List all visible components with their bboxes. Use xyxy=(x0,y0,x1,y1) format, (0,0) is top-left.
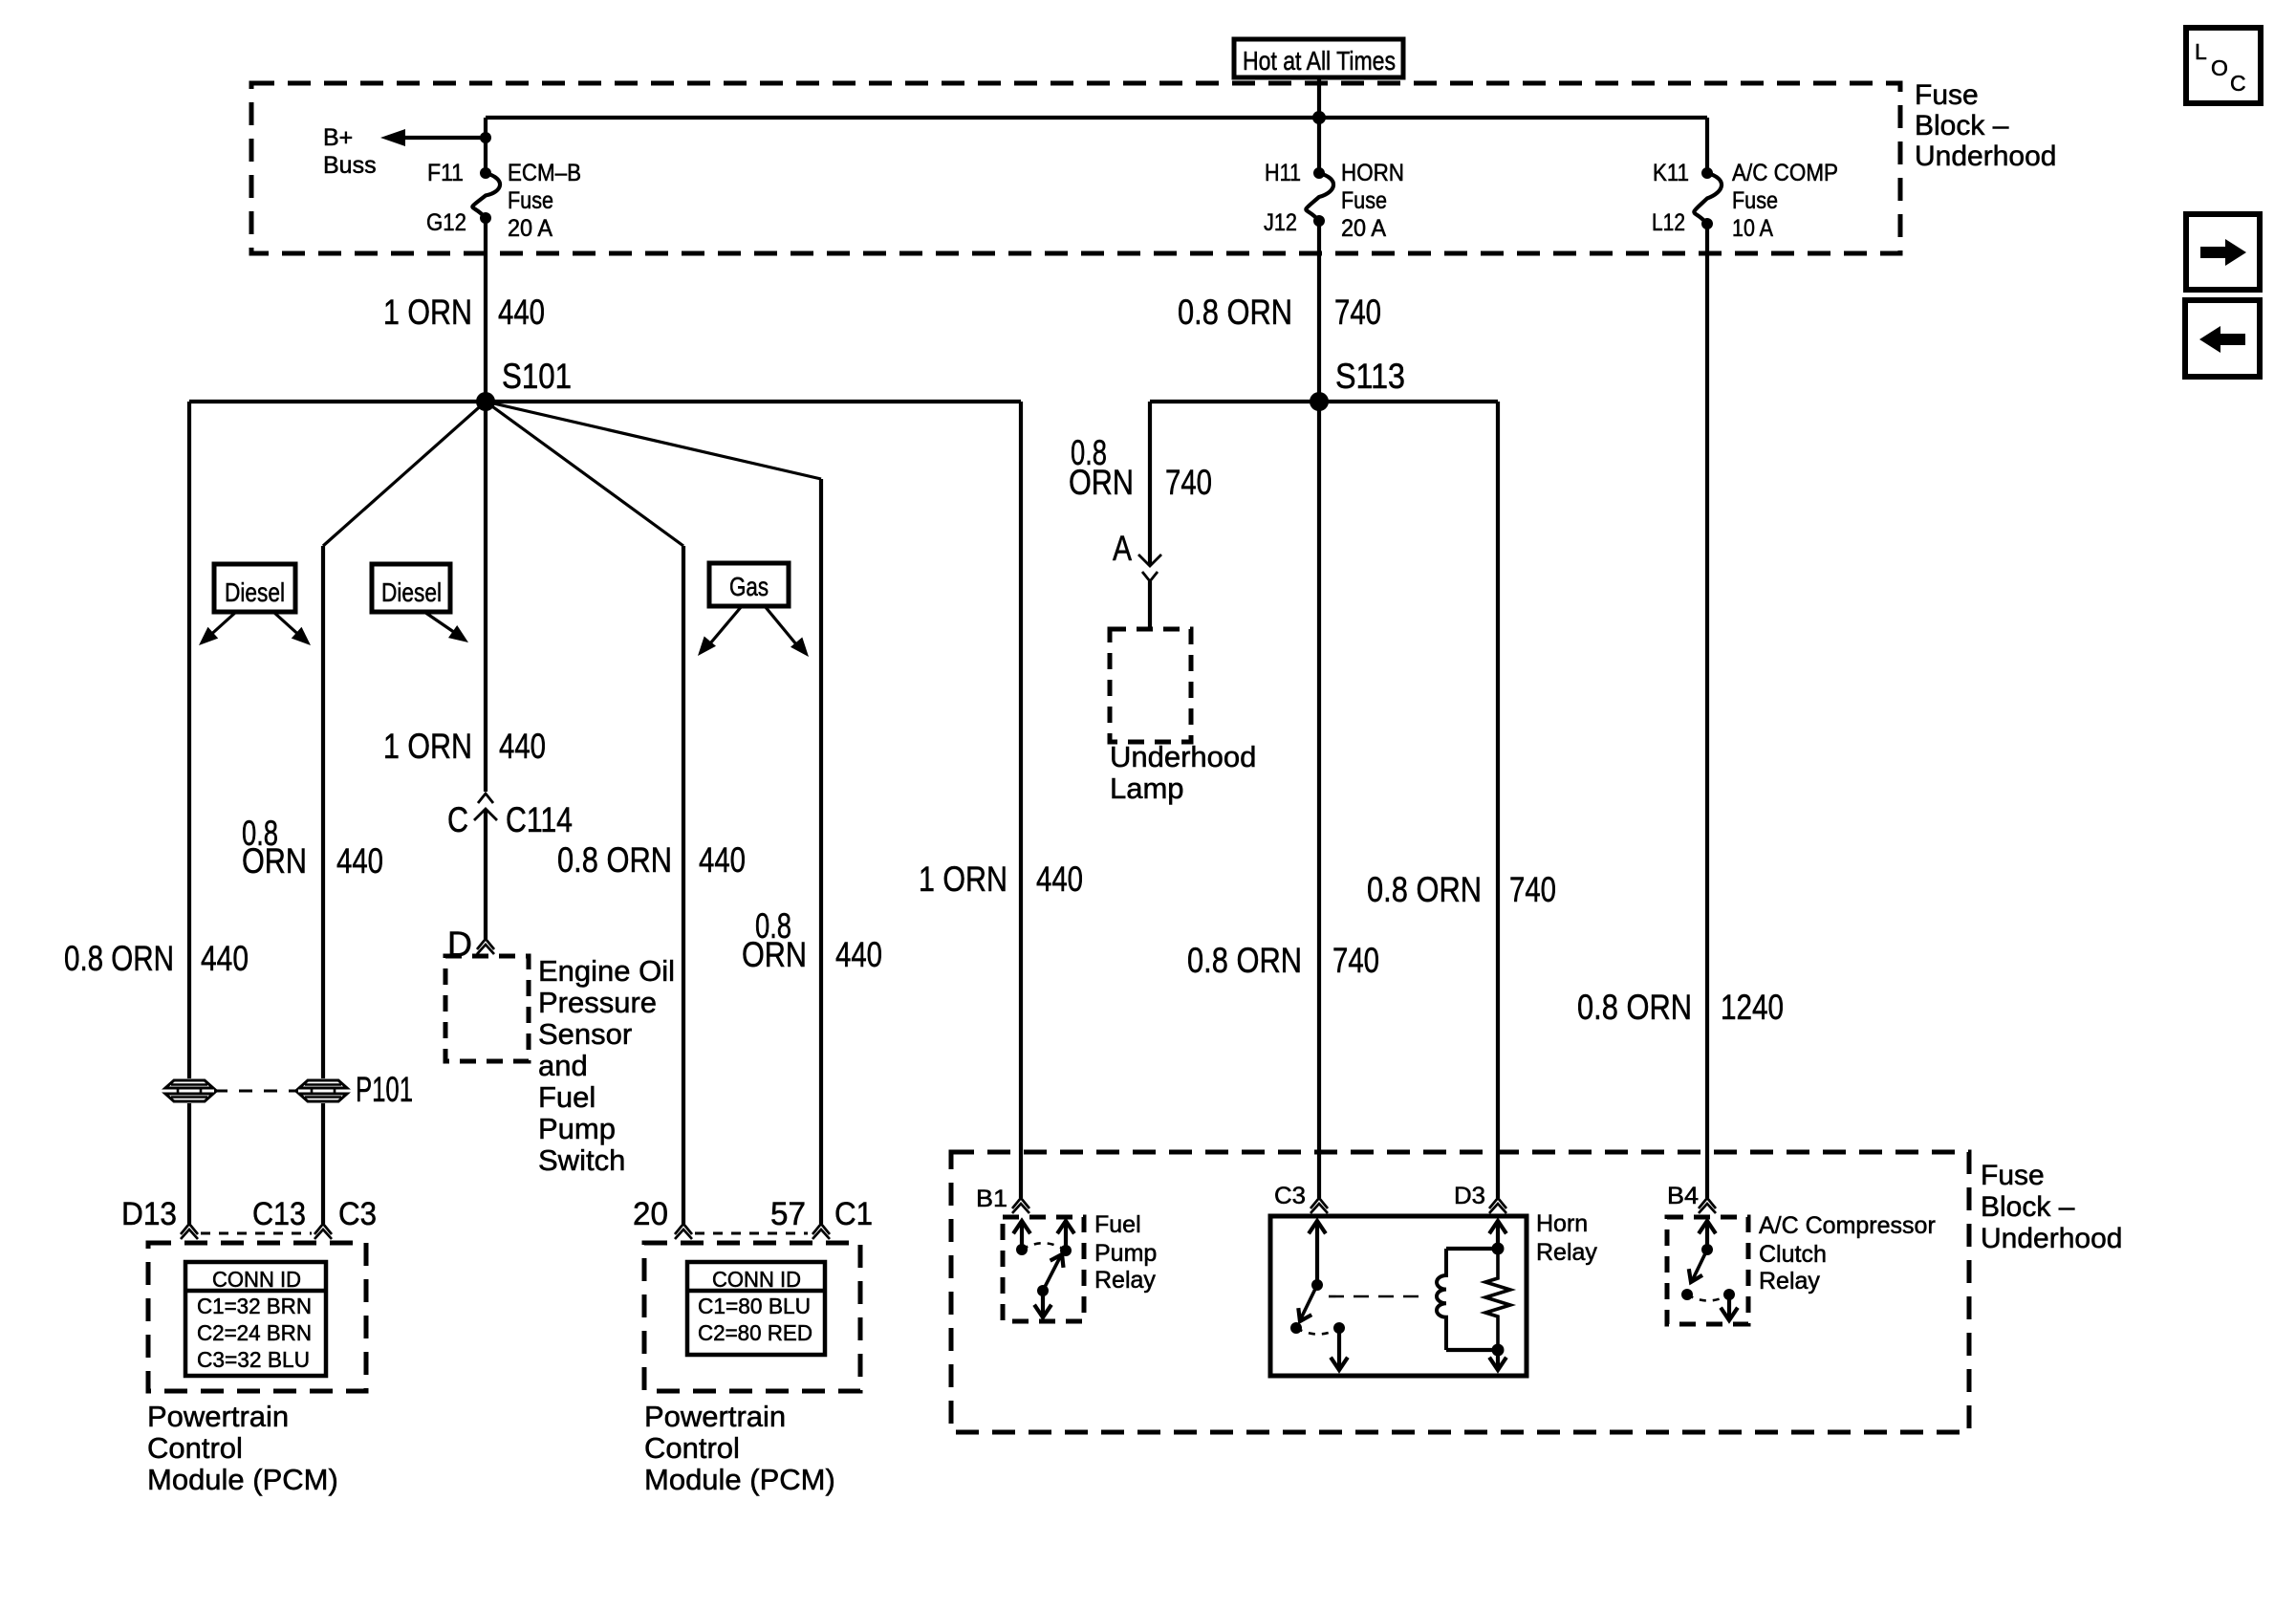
svg-text:20 A: 20 A xyxy=(1341,215,1386,242)
wire xyxy=(1150,400,1498,403)
wire xyxy=(1705,224,1709,1198)
wire xyxy=(1496,402,1500,1198)
wire xyxy=(1317,402,1321,1198)
svg-text:440: 440 xyxy=(835,935,882,974)
wire xyxy=(1019,402,1023,1198)
svg-text:ECM–B: ECM–B xyxy=(508,160,581,186)
a/c relay contacts xyxy=(1705,1222,1709,1250)
svg-text:57: 57 xyxy=(770,1196,806,1232)
svg-text:740: 740 xyxy=(1165,463,1212,502)
svg-text:B4: B4 xyxy=(1667,1183,1699,1209)
label Gas xyxy=(709,563,789,606)
svg-text:Pump: Pump xyxy=(538,1112,616,1145)
svg-text:10 A: 10 A xyxy=(1732,215,1773,242)
wire xyxy=(484,138,487,173)
wire xyxy=(682,546,685,1224)
powertrain control module box 1 xyxy=(148,1243,366,1391)
horn relay resistor xyxy=(1485,1249,1510,1350)
wire Gas arrows xyxy=(705,606,742,649)
node junction xyxy=(480,132,491,143)
svg-text:0.8 ORN: 0.8 ORN xyxy=(557,840,672,880)
svg-text:HORN: HORN xyxy=(1341,160,1404,186)
svg-text:C114: C114 xyxy=(506,800,573,839)
wire xyxy=(1317,118,1321,173)
splice S113 xyxy=(1310,392,1329,411)
svg-text:Powertrain: Powertrain xyxy=(644,1400,786,1433)
svg-text:L: L xyxy=(2195,39,2207,64)
svg-text:Fuse: Fuse xyxy=(1915,79,1979,111)
svg-text:Fuse: Fuse xyxy=(1341,187,1387,214)
svg-text:B1: B1 xyxy=(976,1186,1007,1212)
svg-text:Buss: Buss xyxy=(323,152,377,179)
fuel pump relay box xyxy=(1003,1217,1084,1321)
svg-text:440: 440 xyxy=(336,841,383,881)
icon LOC box xyxy=(2186,28,2261,103)
svg-text:Diesel: Diesel xyxy=(225,577,285,607)
horn relay box xyxy=(1270,1216,1527,1376)
svg-text:Relay: Relay xyxy=(1536,1239,1597,1266)
engine oil pressure sensor and fuel pump switch box xyxy=(445,956,529,1061)
wire xyxy=(486,402,821,479)
svg-text:C3: C3 xyxy=(1274,1183,1306,1209)
svg-text:Fuse: Fuse xyxy=(1981,1160,2045,1191)
svg-text:440: 440 xyxy=(201,939,249,978)
wire xyxy=(1317,221,1321,402)
svg-text:740: 740 xyxy=(1332,941,1379,980)
node junction xyxy=(1312,111,1326,124)
svg-text:1 ORN: 1 ORN xyxy=(383,293,472,332)
pin C3 (horn relay) xyxy=(1310,1198,1328,1208)
svg-text:K11: K11 xyxy=(1653,160,1689,186)
horn relay switch xyxy=(1315,1222,1319,1285)
wire xyxy=(187,1103,191,1224)
conn id table 1 xyxy=(185,1262,326,1376)
svg-text:Underhood: Underhood xyxy=(1981,1223,2122,1254)
connector P101 right half xyxy=(299,1080,347,1088)
connector C114 xyxy=(478,794,493,803)
svg-text:1240: 1240 xyxy=(1721,988,1784,1027)
pin 20 xyxy=(675,1224,692,1234)
node Hot at All Times xyxy=(1234,39,1403,77)
svg-text:Module (PCM): Module (PCM) xyxy=(147,1463,338,1496)
splice S101 xyxy=(476,392,495,411)
svg-text:C1=80 BLU: C1=80 BLU xyxy=(698,1294,811,1318)
svg-text:D13: D13 xyxy=(121,1196,177,1232)
svg-text:H11: H11 xyxy=(1265,160,1301,186)
conn id table 2 xyxy=(687,1262,825,1355)
svg-text:C13: C13 xyxy=(252,1196,306,1232)
fuse F11/G12 ECM-B 20A xyxy=(480,167,491,179)
svg-text:CONN ID: CONN ID xyxy=(712,1267,801,1292)
svg-text:ORN: ORN xyxy=(1069,463,1134,502)
svg-text:1 ORN: 1 ORN xyxy=(919,859,1007,899)
svg-text:Pressure: Pressure xyxy=(538,986,657,1019)
svg-text:A/C Compressor: A/C Compressor xyxy=(1759,1212,1936,1239)
svg-text:Fuse: Fuse xyxy=(508,187,553,214)
svg-text:J12: J12 xyxy=(1264,209,1297,236)
pin B4 xyxy=(1699,1198,1716,1208)
svg-text:S101: S101 xyxy=(502,357,572,396)
svg-text:CONN ID: CONN ID xyxy=(212,1267,301,1292)
svg-text:Block –: Block – xyxy=(1915,110,2009,141)
wire xyxy=(819,479,823,1224)
wire xyxy=(323,402,486,546)
connector A xyxy=(1138,555,1161,566)
wire Diesel1 arrows xyxy=(206,612,236,639)
svg-text:20: 20 xyxy=(633,1196,668,1232)
fuse block - underhood (bottom) boundary xyxy=(951,1152,1969,1432)
svg-text:and: and xyxy=(538,1049,588,1082)
svg-text:Switch: Switch xyxy=(538,1143,625,1177)
svg-text:B+: B+ xyxy=(323,124,353,151)
pin D13 xyxy=(181,1224,198,1234)
label Diesel 1 xyxy=(214,564,295,612)
svg-text:C1: C1 xyxy=(834,1196,873,1232)
wire P101 link xyxy=(214,1090,298,1093)
wire xyxy=(321,546,325,1078)
svg-text:ORN: ORN xyxy=(742,935,807,974)
svg-text:0.8 ORN: 0.8 ORN xyxy=(1367,870,1482,909)
pin 57 xyxy=(812,1224,830,1234)
icon forward arrow box xyxy=(2186,214,2260,290)
svg-text:0.8 ORN: 0.8 ORN xyxy=(1187,941,1302,980)
svg-text:0.8 ORN: 0.8 ORN xyxy=(64,939,174,978)
svg-text:Diesel: Diesel xyxy=(381,577,442,607)
svg-text:Fuse: Fuse xyxy=(1732,187,1778,214)
wire xyxy=(486,402,683,546)
svg-text:Hot at All Times: Hot at All Times xyxy=(1243,46,1396,76)
a/c compressor clutch relay box xyxy=(1667,1217,1748,1324)
wire horn relay dashed link xyxy=(1329,1295,1427,1298)
wire B+ Buss arrow xyxy=(405,136,486,140)
svg-text:0.8 ORN: 0.8 ORN xyxy=(1178,293,1292,332)
pin D xyxy=(477,939,494,949)
fuel pump relay contacts xyxy=(1020,1222,1024,1250)
svg-text:S113: S113 xyxy=(1335,357,1405,396)
horn relay coil xyxy=(1496,1222,1500,1249)
underhood lamp box xyxy=(1110,629,1191,742)
svg-text:C1=32 BRN: C1=32 BRN xyxy=(197,1294,312,1318)
svg-text:C3: C3 xyxy=(338,1196,377,1232)
svg-text:740: 740 xyxy=(1509,870,1556,909)
svg-text:Horn: Horn xyxy=(1536,1210,1588,1237)
fuse K11/L12 A/C COMP 10A xyxy=(1701,167,1713,179)
svg-text:1 ORN: 1 ORN xyxy=(383,727,472,766)
svg-text:C2=24 BRN: C2=24 BRN xyxy=(197,1320,312,1345)
svg-text:20 A: 20 A xyxy=(508,215,552,242)
svg-text:C2=80 RED: C2=80 RED xyxy=(698,1320,812,1345)
pin D3 xyxy=(1489,1198,1506,1208)
wire xyxy=(484,218,487,402)
svg-text:P101: P101 xyxy=(356,1070,413,1109)
wire xyxy=(484,809,487,939)
svg-text:Lamp: Lamp xyxy=(1110,772,1184,805)
svg-text:D3: D3 xyxy=(1454,1183,1485,1209)
svg-text:G12: G12 xyxy=(426,209,466,236)
svg-text:C3=32 BLU: C3=32 BLU xyxy=(197,1347,310,1372)
svg-text:440: 440 xyxy=(699,840,746,880)
wire bus xyxy=(486,116,1707,120)
wire xyxy=(1148,402,1152,564)
svg-text:Pump: Pump xyxy=(1094,1240,1157,1267)
svg-text:Engine Oil: Engine Oil xyxy=(538,954,675,988)
svg-text:ORN: ORN xyxy=(242,841,307,881)
fuse block - underhood (top) boundary xyxy=(251,83,1900,253)
svg-text:Clutch: Clutch xyxy=(1759,1241,1827,1268)
svg-text:Module (PCM): Module (PCM) xyxy=(644,1463,835,1496)
svg-text:440: 440 xyxy=(499,727,546,766)
svg-text:C: C xyxy=(447,800,468,839)
wire xyxy=(1317,77,1321,118)
pin C13 xyxy=(314,1224,332,1234)
powertrain control module box 2 xyxy=(644,1243,860,1391)
svg-text:Fuel: Fuel xyxy=(1094,1211,1141,1238)
svg-text:F11: F11 xyxy=(427,160,464,186)
wire xyxy=(1148,581,1152,629)
svg-text:Fuel: Fuel xyxy=(538,1080,596,1114)
svg-text:Relay: Relay xyxy=(1094,1267,1156,1294)
svg-text:Gas: Gas xyxy=(729,572,769,601)
wire xyxy=(484,402,487,792)
wire xyxy=(1705,118,1709,173)
svg-text:L12: L12 xyxy=(1652,209,1685,236)
svg-text:Powertrain: Powertrain xyxy=(147,1400,289,1433)
icon back arrow box xyxy=(2185,300,2260,377)
pin B1 xyxy=(1012,1198,1029,1208)
wire xyxy=(189,400,1021,403)
wire pin link dashed (PCM1) xyxy=(201,1232,312,1235)
svg-text:A: A xyxy=(1113,529,1132,568)
wire xyxy=(321,1103,325,1224)
svg-text:A/C COMP: A/C COMP xyxy=(1732,160,1838,186)
svg-text:O: O xyxy=(2211,55,2228,80)
svg-text:Underhood: Underhood xyxy=(1110,740,1256,773)
svg-text:Control: Control xyxy=(147,1431,243,1465)
wire Diesel2 arrow xyxy=(424,612,461,637)
svg-text:440: 440 xyxy=(498,293,545,332)
fuse H11/J12 HORN 20A xyxy=(1313,167,1325,179)
svg-text:Sensor: Sensor xyxy=(538,1017,632,1051)
wire xyxy=(484,118,487,138)
wire pin link dashed (PCM2) xyxy=(695,1232,808,1235)
wire xyxy=(187,402,191,1078)
svg-text:C: C xyxy=(2230,71,2246,96)
svg-text:0.8 ORN: 0.8 ORN xyxy=(1577,988,1692,1027)
svg-text:740: 740 xyxy=(1334,293,1381,332)
svg-text:Block –: Block – xyxy=(1981,1191,2075,1223)
connector P101 left half xyxy=(165,1080,213,1088)
label Diesel 2 xyxy=(372,564,450,612)
svg-text:440: 440 xyxy=(1036,859,1083,899)
svg-text:Control: Control xyxy=(644,1431,740,1465)
svg-text:Relay: Relay xyxy=(1759,1268,1820,1295)
svg-text:Underhood: Underhood xyxy=(1915,141,2056,172)
